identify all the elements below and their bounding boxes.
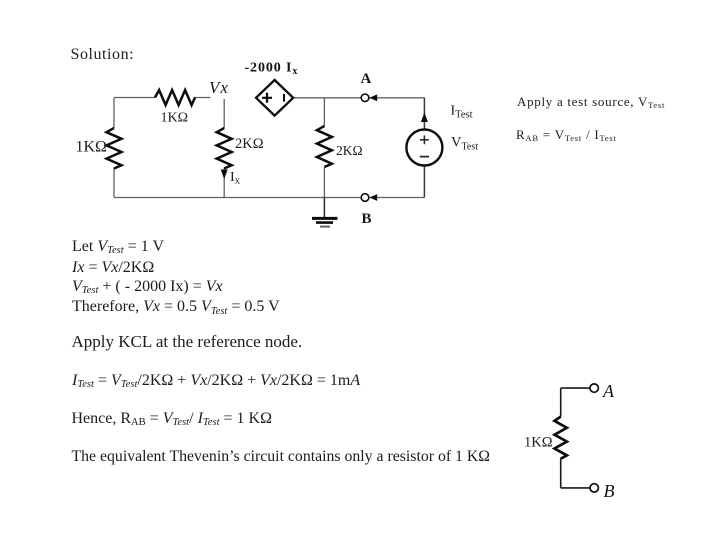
text Apply KCL [72, 332, 303, 352]
resistor 1K horizontal [155, 90, 195, 105]
annotation Apply a test source [517, 94, 665, 111]
small circuit: terminal B circle [590, 484, 598, 492]
svg-text:B: B [362, 211, 372, 227]
plus sign in source [420, 135, 429, 144]
equation Hence RAB [72, 409, 273, 430]
ground [323, 198, 325, 218]
minus bar in diamond [283, 94, 285, 102]
svg-text:2KΩ: 2KΩ [235, 136, 264, 152]
wire left vertical [113, 98, 115, 198]
text The equivalent Thevenin [72, 447, 491, 466]
terminal A circle [361, 94, 369, 102]
dependent source U1 diamond [256, 80, 293, 116]
small circuit: terminal A circle [590, 384, 598, 392]
wire diamond to A [293, 97, 424, 99]
equation block Let/Ix/VTest/Therefore [72, 238, 280, 319]
svg-text:1KΩ: 1KΩ [524, 434, 553, 450]
svg-text:A: A [602, 381, 615, 401]
small circuit: resistor 1K [555, 417, 567, 459]
svg-text:-2000 Ix: -2000 Ix [245, 61, 299, 78]
small circuit: wire bottom [561, 458, 590, 488]
resistor 2K right branch [317, 126, 332, 167]
arrow into terminal B [369, 194, 377, 201]
wire bottom horizontal [114, 197, 424, 199]
svg-text:2KΩ: 2KΩ [336, 143, 363, 158]
wire top-left horizontal [114, 97, 211, 99]
voltage source VTest [406, 130, 442, 166]
arrow Ix current [223, 170, 225, 177]
plus sign in diamond [262, 93, 272, 103]
wire test source vertical [423, 98, 425, 198]
equation ITest KCL [72, 371, 360, 392]
svg-text:VTest: VTest [451, 135, 478, 153]
svg-text:A: A [361, 71, 372, 87]
terminal B circle [361, 194, 369, 202]
arrow ITest current [421, 113, 428, 123]
arrow into terminal A [369, 94, 377, 101]
heading Solution: [71, 45, 135, 64]
minus sign in source [420, 156, 429, 158]
svg-text:B: B [604, 481, 615, 501]
svg-text:ITest: ITest [451, 104, 473, 121]
svg-text:Ix: Ix [230, 170, 241, 187]
resistor 2K middle [217, 128, 232, 169]
wire Vx vertical [223, 99, 225, 198]
wire right branch vertical [323, 98, 325, 198]
small circuit: wire top [561, 388, 590, 417]
svg-text:1KΩ: 1KΩ [76, 139, 108, 156]
svg-text:1KΩ: 1KΩ [161, 110, 189, 125]
annotation RAB formula [516, 127, 617, 144]
svg-text:Vx: Vx [209, 78, 229, 97]
resistor 1K left [107, 128, 122, 169]
